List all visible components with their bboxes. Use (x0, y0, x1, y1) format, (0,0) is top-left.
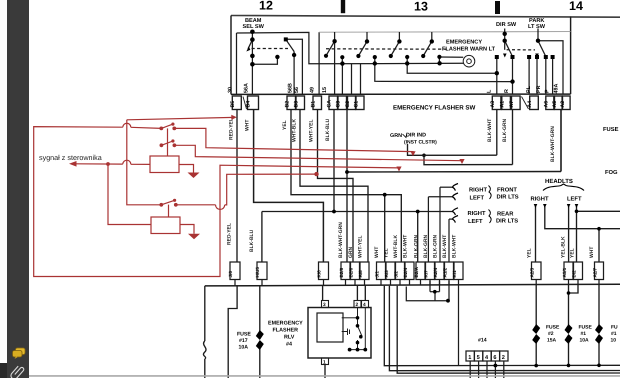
svg-text:56B: 56B (288, 83, 294, 93)
svg-text:EMERGENCY: EMERGENCY (446, 40, 482, 46)
svg-text:15A: 15A (547, 338, 557, 344)
svg-text:LT SW: LT SW (528, 24, 546, 30)
svg-text:WHT-YEL: WHT-YEL (358, 236, 364, 259)
svg-text:#1: #1 (611, 331, 617, 337)
svg-text:K/1: K/1 (452, 270, 457, 278)
svg-text:A7: A7 (509, 101, 515, 108)
svg-text:P: P (545, 89, 551, 93)
svg-text:YEL: YEL (527, 248, 533, 258)
svg-text:(INST CLSTR): (INST CLSTR) (404, 140, 437, 146)
svg-text:R: R (504, 89, 510, 93)
svg-text:A4: A4 (527, 101, 533, 108)
svg-text:YEL: YEL (282, 120, 288, 130)
svg-text:DIR LTS: DIR LTS (496, 218, 518, 225)
svg-text:56A: 56A (244, 83, 250, 93)
svg-text:56: 56 (294, 87, 300, 93)
svg-text:10A: 10A (580, 338, 590, 344)
svg-text:J/6: J/6 (228, 271, 233, 278)
svg-text:14: 14 (569, 0, 583, 13)
svg-text:FUSE: FUSE (546, 325, 560, 331)
svg-text:10A: 10A (239, 345, 249, 351)
svg-text:B2/4: B2/4 (403, 267, 408, 277)
svg-text:A5: A5 (552, 101, 558, 108)
svg-text:B1: B1 (311, 101, 317, 108)
svg-text:49: 49 (310, 87, 316, 93)
svg-text:#4: #4 (286, 342, 292, 348)
svg-text:HEADLTS: HEADLTS (545, 178, 573, 185)
svg-text:2: 2 (356, 302, 359, 308)
svg-text:#1: #1 (581, 331, 587, 337)
svg-text:EMERGENCY: EMERGENCY (268, 321, 303, 327)
svg-text:DIR IND: DIR IND (406, 133, 426, 139)
svg-text:FRONT: FRONT (497, 187, 517, 194)
svg-text:B2/8: B2/8 (339, 267, 344, 277)
svg-text:RIGHT: RIGHT (468, 210, 486, 217)
svg-text:YEL: YEL (384, 248, 390, 258)
svg-text:FUSE: FUSE (603, 126, 619, 133)
svg-text:C2: C2 (345, 101, 351, 108)
svg-text:6: 6 (493, 355, 496, 361)
svg-text:WHT-BLK: WHT-BLK (292, 119, 298, 142)
svg-text:sygnał z sterownika: sygnał z sterownika (39, 153, 102, 162)
svg-text:10: 10 (611, 338, 617, 344)
svg-text:B3: B3 (294, 101, 300, 108)
svg-text:RIGHT: RIGHT (469, 187, 487, 194)
svg-text:30: 30 (228, 87, 234, 93)
svg-text:5: 5 (477, 355, 480, 361)
svg-text:WHT: WHT (374, 247, 380, 258)
svg-text:YEL-BLK: YEL-BLK (561, 236, 567, 258)
svg-text:D/2: D/2 (571, 270, 576, 278)
svg-text:A2: A2 (560, 101, 566, 108)
svg-text:PR: PR (536, 85, 542, 93)
svg-text:A6: A6 (543, 101, 549, 108)
svg-text:BLK-WHT-GRN: BLK-WHT-GRN (550, 126, 556, 162)
svg-text:FLASHER: FLASHER (273, 328, 299, 334)
svg-text:FUSE: FUSE (579, 325, 593, 331)
svg-text:15: 15 (322, 87, 328, 93)
svg-text:2: 2 (502, 355, 505, 361)
svg-text:RED-YEL: RED-YEL (227, 223, 233, 245)
svg-text:A3: A3 (490, 101, 496, 108)
svg-text:GRN: GRN (390, 133, 402, 139)
svg-text:LEFT: LEFT (567, 197, 582, 203)
svg-text:BLK-GRN: BLK-GRN (433, 235, 439, 258)
svg-text:A2/4: A2/4 (433, 267, 438, 277)
svg-text:DIR LTS: DIR LTS (497, 194, 519, 201)
svg-text:49A: 49A (554, 84, 560, 94)
svg-text:A/3: A/3 (384, 270, 389, 278)
svg-text:13: 13 (414, 0, 428, 14)
svg-text:C1: C1 (354, 101, 360, 108)
svg-text:B2/6: B2/6 (348, 267, 353, 277)
svg-text:FUSE: FUSE (237, 332, 251, 338)
svg-text:PL: PL (526, 85, 532, 93)
svg-text:CA: CA (327, 100, 333, 108)
svg-text:BLK-WHT-GRN: BLK-WHT-GRN (338, 222, 344, 258)
svg-text:BLK-BLU: BLK-BLU (325, 118, 331, 141)
svg-text:RIGHT: RIGHT (531, 196, 549, 203)
svg-text:BLK-GRN: BLK-GRN (414, 235, 420, 258)
svg-text:C3: C3 (336, 101, 342, 108)
svg-text:DIR SW: DIR SW (496, 22, 517, 28)
svg-text:YEL: YEL (570, 248, 576, 258)
svg-text:#2: #2 (548, 331, 554, 337)
svg-text:BLK-WHT: BLK-WHT (403, 235, 409, 258)
svg-text:RED-YEL: RED-YEL (229, 118, 235, 140)
svg-text:GRN: GRN (348, 247, 354, 259)
svg-text:B5: B5 (230, 101, 236, 108)
svg-text:B4: B4 (246, 101, 252, 108)
svg-text:A2/3: A2/3 (529, 267, 534, 277)
svg-text:BLK-GRN: BLK-GRN (502, 119, 508, 142)
svg-text:REAR: REAR (497, 212, 514, 218)
svg-text:1: 1 (468, 355, 471, 361)
svg-text:J/2: J/2 (393, 271, 398, 278)
svg-text:A2/7: A2/7 (592, 267, 597, 277)
svg-text:RLV: RLV (284, 335, 295, 341)
svg-text:WHT-YEL: WHT-YEL (309, 120, 315, 143)
svg-text:BLK-BLU: BLK-BLU (249, 229, 255, 252)
svg-text:FOG: FOG (605, 169, 618, 176)
svg-text:J/1: J/1 (374, 271, 379, 278)
svg-text:WHT: WHT (589, 247, 595, 258)
svg-text:12: 12 (259, 0, 273, 13)
svg-text:3: 3 (323, 302, 326, 308)
svg-text:A/8: A/8 (358, 270, 363, 278)
svg-text:4: 4 (363, 302, 366, 308)
svg-text:BLK-WHT: BLK-WHT (487, 119, 493, 142)
svg-text:B2/A: B2/A (414, 266, 419, 277)
svg-text:A5/1: A5/1 (562, 267, 567, 277)
svg-text:LEFT: LEFT (468, 219, 483, 225)
svg-text:K/7: K/7 (423, 270, 428, 278)
svg-text:FU: FU (611, 325, 618, 331)
svg-text:A1/2: A1/2 (442, 267, 447, 277)
svg-text:H/U5: H/U5 (255, 267, 260, 278)
svg-text:WHT: WHT (245, 120, 251, 131)
svg-text:LEFT: LEFT (470, 196, 485, 202)
svg-text:FLASHER WARN LT: FLASHER WARN LT (442, 47, 496, 53)
svg-text:#17: #17 (239, 338, 248, 344)
svg-text:#14: #14 (478, 338, 487, 344)
svg-text:1: 1 (323, 360, 326, 366)
svg-text:BLK-WHT: BLK-WHT (452, 235, 458, 258)
svg-text:BLK-WHT: BLK-WHT (442, 235, 448, 258)
svg-text:A1: A1 (499, 101, 505, 108)
svg-text:EMERGENCY FLASHER SW: EMERGENCY FLASHER SW (393, 105, 476, 112)
svg-text:K/6: K/6 (317, 270, 322, 278)
svg-text:WHT-BLK: WHT-BLK (393, 235, 399, 258)
svg-text:BLK-GRN: BLK-GRN (423, 235, 429, 258)
svg-text:B2: B2 (285, 101, 291, 108)
svg-text:SEL SW: SEL SW (243, 24, 265, 30)
